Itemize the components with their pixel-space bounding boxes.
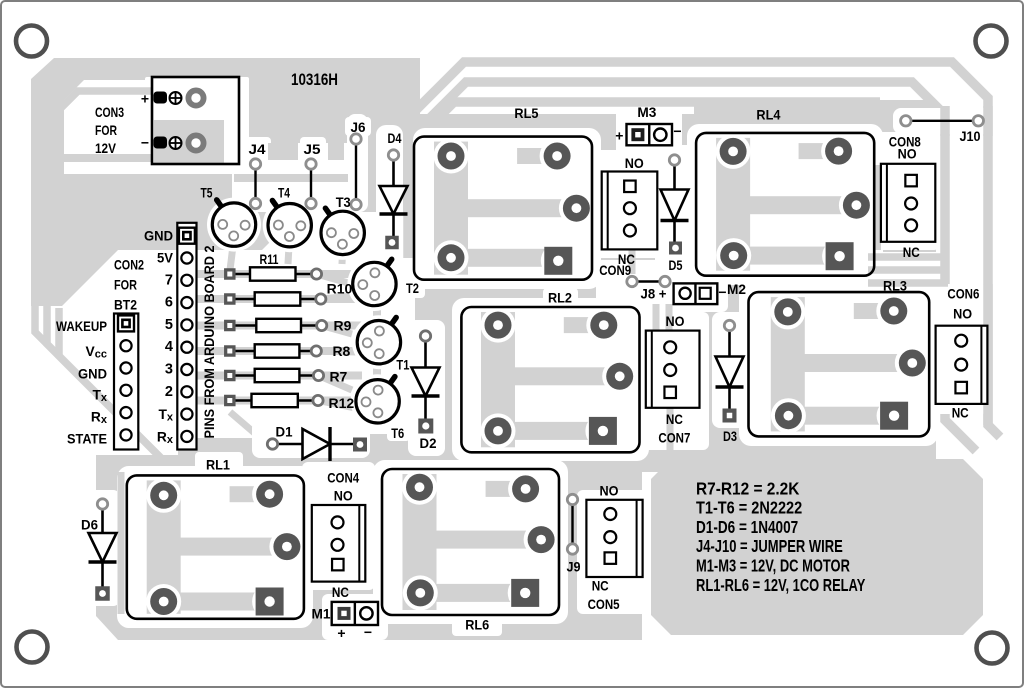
svg-text:+: + [337,625,345,641]
svg-text:D4: D4 [388,130,402,146]
svg-text:2: 2 [165,384,173,400]
D1 left pad [267,439,277,449]
RL2 pad 3 [606,363,633,390]
svg-text:NC: NC [332,584,349,600]
D5 bottom pad [669,242,682,255]
RL2 pad 4 [485,417,512,444]
ARDUINO pin 3 [181,364,192,375]
svg-text:3: 3 [165,362,173,378]
jumper J4 wire [254,164,256,204]
svg-text:NO: NO [625,155,644,171]
ARDUINO pin 5 [181,319,192,330]
header CON2 outline [114,314,138,450]
CON3 ring pad - [188,135,203,150]
CON3 pin - blob [154,137,168,149]
resistor R11 body [250,267,296,280]
svg-text:J4-J10 = JUMPER WIRE: J4-J10 = JUMPER WIRE [696,536,843,556]
connector M1 [332,602,378,625]
CON9 pin C [624,202,636,214]
svg-text:RL5: RL5 [514,105,538,121]
jumper J8 pads [627,276,637,286]
RL4 pad 3 [843,192,870,219]
transistor T5 [217,200,222,207]
D3 top pad [724,320,734,330]
resistor R12 lead [230,399,318,401]
ARDUINO pin 7 [181,275,192,286]
svg-text:−: − [141,135,149,151]
svg-text:R10: R10 [327,281,353,297]
relay RL4 outline [696,133,874,276]
resistor R9 left pad [224,320,236,332]
RL6 pad 1 [406,474,433,501]
svg-text:FOR: FOR [95,122,117,138]
jumper J8 wire [632,280,665,282]
RL1 pad 1 [150,482,177,509]
svg-text:6: 6 [165,295,173,311]
mounting hole bottom-right [977,633,1008,664]
CON2 pin Vcc [120,340,131,351]
CON2 pin Rx [120,407,131,418]
svg-text:RL6: RL6 [465,616,489,632]
CON5 pin NC [605,552,617,564]
resistor R11 left pad [224,268,236,280]
trace details [54,91,152,115]
D2 top pad [420,331,430,341]
resistor R10 left pad [224,293,236,305]
svg-text:−: − [673,123,681,139]
ARDUINO pin 2 [181,386,192,397]
RL5 pad 4 [438,244,465,271]
svg-text:CON7: CON7 [658,430,690,446]
svg-text:CON2: CON2 [114,257,144,273]
RL3 pad 5 [880,402,908,430]
copper pour layer [31,58,420,306]
connector CON4 [312,505,366,582]
RL5 pad 5 [544,247,572,275]
CON9 pin NC [624,225,636,237]
diode D2 [424,336,427,368]
svg-text:RL3: RL3 [883,278,907,294]
diode D5 [673,160,676,190]
svg-text:CON6: CON6 [947,286,979,302]
resistor R7 right pad [313,370,323,380]
RL1 pad 4 [150,588,177,615]
CON8 pin NC [905,219,917,231]
CON6 pin C [955,359,967,371]
connector CON5 [586,500,642,577]
CON4 pin NO [332,516,344,528]
jumper J6 pads [351,134,361,144]
resistor R8 lead [230,350,316,352]
resistor R9 right pad [317,320,327,330]
connector CON9 [602,172,658,250]
resistor R9 body [256,319,301,332]
svg-text:PINS FROM ARDUINO BOARD 2: PINS FROM ARDUINO BOARD 2 [201,245,217,438]
svg-text:R7: R7 [329,369,347,385]
connector CON7 [646,331,700,408]
D6 top pad [97,499,107,509]
CON6 pin NC [955,382,967,394]
svg-text:CON5: CON5 [588,596,620,612]
RL3 pad 1 [774,298,801,325]
M3 left pad [631,128,644,141]
RL3 pad 4 [775,402,802,429]
RL5 pad 2 [544,143,571,170]
svg-text:NO: NO [953,306,972,322]
svg-text:J10: J10 [960,128,981,144]
svg-text:CON4: CON4 [327,469,359,485]
svg-text:NC: NC [903,244,920,260]
D4 bottom pad [385,236,399,250]
CON2 pin GND [120,362,131,373]
svg-text:10316H: 10316H [291,70,338,89]
D5 top pad [669,155,679,165]
RL4 pad 1 [720,138,747,165]
RL3 pad 2 [880,298,907,325]
svg-text:R8: R8 [332,343,350,359]
RL6 pad 4 [407,579,434,606]
svg-text:D6: D6 [81,517,98,533]
mounting hole top-left [16,26,47,57]
resistor R10 body [255,292,301,305]
svg-text:M3: M3 [637,104,656,120]
svg-text:+: + [141,91,149,107]
RL6 pad 2 [512,475,539,502]
CON3 pin + blob [154,92,168,104]
jumper J9 wire [571,500,573,550]
connector CON6 [936,326,988,404]
ARDUINO pin Rx [181,431,192,442]
svg-text:NC: NC [592,578,609,594]
svg-text:BT2: BT2 [114,297,137,313]
svg-text:R12: R12 [328,395,354,411]
CON5 pin C [604,531,616,543]
svg-text:D2: D2 [420,435,437,451]
M2 left pad [680,288,691,299]
svg-text:T6: T6 [391,425,404,441]
diode D3 [728,326,731,357]
svg-text:WAKEUP: WAKEUP [56,319,107,334]
relay RL2 outline [461,307,639,452]
CON9 pin NO [624,181,636,193]
CON8 pin NO [905,175,917,187]
svg-text:D1: D1 [276,424,293,440]
ARDUINO pin 6 [181,297,192,308]
RL3 pad 3 [899,350,926,377]
RL4 pad 5 [826,242,854,270]
M3 right pad [654,129,666,141]
svg-text:5: 5 [165,317,173,333]
CON2 pin STATE [120,429,131,440]
svg-text:T1: T1 [396,356,409,372]
transistor T2 [387,259,392,266]
svg-text:T4: T4 [278,185,290,201]
svg-text:NC: NC [952,405,969,421]
ARDUINO pin 5V [181,252,192,263]
CON6 pin NO [955,335,967,347]
M2 right pad [700,288,711,299]
svg-text:CON3: CON3 [95,104,124,120]
resistor R12 right pad [313,395,323,405]
svg-text:J5: J5 [304,141,321,157]
resistor R10 lead [230,298,321,300]
resistor R8 left pad [224,345,236,357]
connector M3 [627,124,673,145]
svg-text:CON9: CON9 [599,262,631,278]
CON5 pin NO [604,508,616,520]
jumper J9 pads [567,494,577,504]
jumper J6 wire [355,139,357,205]
connector CON3 outline [152,77,239,164]
svg-text:NC: NC [666,411,683,427]
diode D4 [392,155,395,186]
transistor T4 [272,201,277,208]
RL4 pad 4 [720,242,747,269]
jumper J10 pads [901,116,911,126]
CON7 pin NC [664,387,676,399]
svg-text:T1-T6 = 2N2222: T1-T6 = 2N2222 [696,498,802,518]
svg-text:R9: R9 [334,318,352,334]
CON2 pin Tx [120,385,131,396]
ARDUINO pin GND [179,228,195,244]
ARDUINO pin 4 [181,342,192,353]
svg-text:R7-R12 = 2.2K: R7-R12 = 2.2K [696,478,800,498]
jumper J5 pads [306,159,316,169]
svg-text:FOR: FOR [114,277,137,293]
CON8 pin C [905,198,917,210]
resistor R7 left pad [224,370,236,382]
mounting hole bottom-left [17,632,48,663]
svg-text:T3: T3 [336,194,351,210]
jumper J5 wire [310,164,312,204]
D2 bottom pad [418,419,433,434]
RL5 pad 3 [563,195,590,222]
svg-text:D5: D5 [669,257,683,273]
RL1 pad 2 [256,481,283,508]
resistor R8 body [255,344,300,357]
svg-text:STATE: STATE [67,432,107,447]
CON3 crosshair pad - [170,137,182,149]
svg-text:12V: 12V [95,140,117,156]
RL2 pad 5 [589,417,617,445]
resistor R11 lead [230,273,317,275]
svg-text:J4: J4 [249,141,266,157]
RL2 pad 2 [590,312,617,339]
svg-text:M1: M1 [312,606,331,622]
resistor R10 right pad [316,294,326,304]
svg-text:NO: NO [600,483,619,499]
transistor T3 [325,208,330,215]
svg-text:RL2: RL2 [548,290,572,306]
resistor R8 right pad [311,346,321,356]
svg-text:J8 +: J8 + [641,286,667,302]
RL2 pad 1 [485,312,512,339]
RL1 pad 5 [256,588,284,616]
resistor R7 body [255,369,300,382]
relay RL5 outline [414,137,592,280]
svg-text:J9: J9 [567,559,581,575]
relay RL1 outline [127,475,304,618]
svg-text:−: − [364,624,372,640]
svg-text:T2: T2 [406,280,419,296]
transistor T6 [390,377,395,384]
white isolation islands [64,80,152,174]
svg-text:D3: D3 [723,428,737,444]
ARDUINO pin Tx [181,409,192,420]
svg-text:RL1: RL1 [206,457,230,473]
D6 bottom pad [95,586,110,601]
resistor R12 left pad [224,395,236,407]
CON3 crosshair pad + [170,92,182,104]
resistor R11 right pad [311,269,321,279]
svg-text:R11: R11 [260,251,279,267]
diode D6 [101,504,104,533]
svg-text:J6: J6 [351,119,366,135]
M1 right pad [360,607,372,619]
RL4 pad 2 [825,138,852,165]
svg-text:NO: NO [898,145,917,161]
M1 left pad [338,607,351,620]
RL5 pad 1 [438,143,465,170]
resistor R9 lead [230,324,322,326]
CON2 pin WAKEUP [118,315,134,331]
D4 top pad [388,150,398,160]
resistor R12 body [252,394,298,407]
svg-text:T5: T5 [201,185,213,201]
svg-text:GND: GND [78,367,107,382]
svg-text:−: − [718,284,726,300]
CON4 pin C [332,539,344,551]
header ARDUINO outline [177,223,196,450]
RL1 pad 3 [273,533,300,560]
svg-text:D1-D6 = 1N4007: D1-D6 = 1N4007 [696,517,798,537]
D3 bottom pad [723,409,737,423]
mounting hole top-right [976,26,1007,57]
legend box [651,459,983,635]
svg-text:7: 7 [165,272,173,288]
diode D1 [273,443,303,446]
svg-text:4: 4 [165,339,173,355]
svg-text:NO: NO [666,313,685,329]
svg-text:GND: GND [144,229,173,244]
relay RL3 outline [749,292,930,436]
connector M2 [674,283,718,304]
svg-text:5V: 5V [157,251,174,266]
svg-text:RL4: RL4 [756,107,780,123]
CON7 pin C [664,364,676,376]
jumper J4 pads [250,159,260,169]
svg-text:RL1-RL6 = 12V, 1CO RELAY: RL1-RL6 = 12V, 1CO RELAY [696,575,866,595]
resistor R7 lead [230,374,319,376]
connector CON8 [881,164,935,242]
svg-text:+: + [615,128,623,144]
svg-text:M1-M3 = 12V, DC MOTOR: M1-M3 = 12V, DC MOTOR [696,556,850,576]
CON3 ring pad + [188,90,203,105]
D1 right pad [353,438,367,452]
svg-text:M2: M2 [727,281,746,297]
CON4 pin NC [332,559,344,571]
RL6 pad 3 [528,526,555,553]
transistor T1 [391,318,396,325]
jumper J10 wire [906,120,979,122]
CON7 pin NO [664,341,676,353]
RL6 pad 5 [511,579,539,607]
svg-text:NO: NO [334,488,353,504]
relay RL6 outline [382,469,559,615]
